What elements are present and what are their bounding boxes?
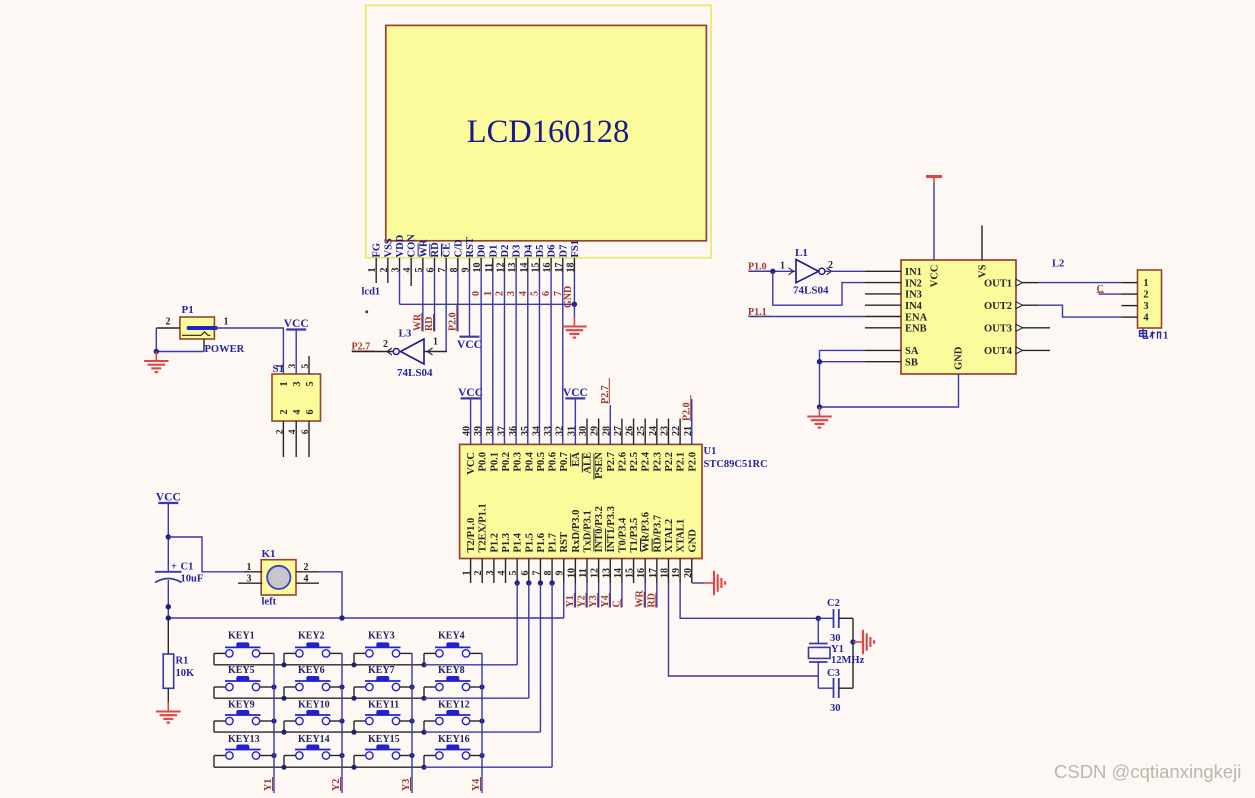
svg-text:P1.6: P1.6	[536, 533, 547, 553]
junction column Y4 row2	[479, 684, 484, 689]
motor driver chip body	[901, 260, 1016, 374]
wire branch to K1 pin1	[168, 537, 244, 572]
svg-text:1: 1	[247, 562, 252, 573]
push button KEY14	[284, 745, 331, 760]
wire R1 to ground	[167, 688, 169, 702]
K1 pin 2	[296, 571, 319, 573]
svg-text:2: 2	[828, 260, 833, 271]
wire OUT3 stub	[1023, 327, 1051, 329]
svg-text:6: 6	[305, 410, 316, 415]
resistor R1	[163, 654, 174, 688]
junction row2 col3	[351, 696, 356, 701]
svg-text:CSDN @cqtianxingkeji: CSDN @cqtianxingkeji	[1054, 761, 1241, 782]
wire KEY3 left drop	[353, 653, 355, 664]
junction P1 gnd	[154, 349, 159, 354]
svg-text:GND: GND	[954, 346, 965, 370]
key matrix row buses	[214, 664, 424, 666]
U1 bottom pin numbers 1-20	[462, 568, 694, 578]
svg-text:36: 36	[508, 426, 519, 436]
ground at R1	[156, 702, 181, 723]
svg-text:3: 3	[288, 364, 298, 369]
wire OUT1 to connector pin1	[1038, 282, 1122, 284]
svg-text:1: 1	[224, 317, 229, 328]
wire KEY3 right pin to column	[400, 652, 412, 654]
wire OUT2 to connector pin4	[1038, 305, 1122, 317]
push button KEY9	[214, 710, 261, 725]
svg-text:P0.5: P0.5	[536, 452, 547, 472]
lcd1 pin stubs	[376, 258, 574, 271]
push button KEY10	[284, 710, 331, 725]
op-amp inverter L1 74LS04	[796, 260, 825, 283]
wire motor VCC	[933, 183, 935, 260]
wire P1.1 to ENA	[749, 316, 865, 318]
svg-text:2: 2	[275, 429, 285, 434]
svg-text:OUT4: OUT4	[984, 346, 1013, 357]
svg-text:+: +	[171, 562, 177, 573]
svg-text:D7: D7	[558, 245, 569, 258]
svg-text:P0.4: P0.4	[524, 451, 535, 471]
svg-text:P1.2: P1.2	[489, 533, 500, 553]
wire KEY10 right pin to column	[330, 720, 342, 722]
svg-text:CE: CE	[442, 243, 453, 258]
svg-text:IN2: IN2	[905, 278, 922, 289]
wire L1 output to IN1	[825, 270, 865, 272]
power bar at motor VCC	[926, 177, 942, 184]
svg-text:4: 4	[1143, 313, 1149, 324]
svg-text:KEY11: KEY11	[368, 700, 399, 711]
S1 bottom stubs	[282, 421, 284, 457]
wire crystal right side	[852, 618, 854, 688]
svg-text:OUT2: OUT2	[984, 301, 1012, 312]
wire to R1	[167, 618, 169, 654]
wire KEY1 left drop	[213, 653, 215, 664]
wire KEY15 left drop	[353, 756, 355, 768]
wire WR lcd pin5	[422, 271, 424, 332]
svg-text:T2EX/P1.1: T2EX/P1.1	[478, 503, 489, 552]
svg-text:TxD/P3.1: TxD/P3.1	[583, 510, 594, 552]
svg-text:30: 30	[830, 633, 841, 644]
wire KEY15 right pin to column	[400, 755, 412, 757]
junction column Y1 row2	[271, 684, 276, 689]
stray dot	[366, 311, 369, 314]
LCD module lcd1 inner box	[386, 25, 707, 240]
svg-text:KEY7: KEY7	[368, 665, 395, 676]
wire SB to gnd	[820, 361, 866, 363]
wire SA to gnd	[820, 349, 866, 351]
svg-text:VS: VS	[978, 264, 989, 278]
svg-text:KEY3: KEY3	[368, 631, 395, 642]
svg-text:RD: RD	[430, 242, 441, 258]
svg-text:P1.7: P1.7	[548, 533, 559, 553]
lcd1 pin names	[372, 234, 581, 258]
svg-text:P0.3: P0.3	[513, 452, 524, 472]
wire KEY7 left drop	[353, 687, 355, 698]
L1 output pin arrow	[827, 268, 832, 275]
L1 input pin arrow	[789, 268, 794, 275]
wire KEY4 left drop	[423, 653, 425, 664]
connector pin stubs	[1122, 283, 1138, 318]
wire RD lcd pin6	[434, 271, 436, 332]
wire KEY11 right pin to column	[400, 720, 412, 722]
junction SB	[817, 359, 822, 364]
svg-text:1: 1	[1143, 278, 1148, 289]
svg-text:3: 3	[247, 574, 252, 585]
junction crystal ground	[850, 639, 855, 644]
K1 button circle	[267, 566, 290, 589]
push button KEY7	[354, 676, 401, 691]
wire VCC to S1 pin3	[295, 330, 297, 375]
wire KEY6 left drop	[283, 687, 285, 698]
lcd1 pin numbers 1-18	[367, 263, 576, 273]
svg-text:IN4: IN4	[905, 301, 923, 312]
svg-text:35: 35	[520, 426, 531, 436]
svg-text:IN3: IN3	[905, 290, 922, 301]
svg-text:KEY4: KEY4	[438, 631, 465, 642]
wire C/D lcd pin8	[457, 271, 459, 332]
S1 pin5 stub	[308, 356, 310, 374]
svg-text:74LS04: 74LS04	[793, 285, 829, 297]
svg-text:L1: L1	[795, 247, 808, 259]
wire lcd pin2 stub	[387, 271, 389, 283]
power VCC at U1 pin40	[458, 387, 483, 399]
wire P1 pin1 to S1	[214, 328, 283, 374]
svg-text:KEY10: KEY10	[298, 700, 330, 711]
svg-text:XTAL1: XTAL1	[676, 519, 687, 553]
push button KEY13	[214, 745, 261, 760]
svg-text:IN1: IN1	[905, 267, 922, 278]
L3 input pin arrow	[387, 348, 392, 355]
svg-text:P2.0: P2.0	[687, 452, 698, 472]
svg-text:2: 2	[166, 317, 171, 328]
connector P1 body	[180, 317, 215, 339]
junction row3 col3	[351, 730, 356, 735]
svg-text:VCC: VCC	[563, 387, 588, 399]
svg-text:VCC: VCC	[458, 387, 483, 399]
wire P1 bottom to gnd	[156, 351, 204, 353]
wire C1 to junctions	[167, 580, 169, 618]
wire lcd power bus	[400, 303, 575, 305]
svg-text:D5: D5	[535, 245, 546, 258]
svg-text:LCD160128: LCD160128	[467, 114, 630, 150]
svg-text:P2.3: P2.3	[652, 452, 663, 472]
wire KEY9 left drop	[213, 721, 215, 732]
svg-text:P0.1: P0.1	[489, 452, 500, 472]
push button KEY4	[424, 642, 471, 657]
motor chip VS stub	[981, 225, 983, 260]
svg-text:1: 1	[433, 337, 438, 348]
svg-text:SA: SA	[905, 346, 919, 357]
wires D0-D7 lcd pins10-17 to U1 P0	[481, 271, 563, 444]
svg-text:K1: K1	[262, 548, 276, 560]
crystal Y1	[809, 618, 831, 688]
wire P1 pin2 down	[155, 328, 157, 352]
svg-text:P1: P1	[182, 304, 194, 316]
P1 switch blade	[182, 332, 211, 335]
svg-text:RxD/P3.0: RxD/P3.0	[571, 510, 582, 553]
push button KEY11	[354, 710, 401, 725]
wire VCC down	[167, 503, 169, 571]
wire RST lcd pin9 to VCC	[468, 271, 470, 337]
svg-text:D3: D3	[512, 245, 523, 258]
svg-text:12MHz: 12MHz	[831, 655, 865, 666]
svg-text:D2: D2	[500, 245, 511, 258]
svg-text:FS1: FS1	[570, 240, 581, 258]
wire lcd pin1 stub	[375, 271, 377, 283]
svg-text:4: 4	[288, 429, 298, 434]
op-amp inverter L3 74LS04	[393, 339, 424, 364]
svg-text:U1: U1	[704, 446, 717, 457]
svg-text:2: 2	[304, 562, 309, 573]
push button KEY15	[354, 745, 401, 760]
junction P1.0	[770, 269, 775, 274]
svg-text:XTAL2: XTAL2	[664, 519, 675, 553]
push button KEY2	[284, 642, 331, 657]
svg-text:P2.2: P2.2	[664, 452, 675, 472]
P1 jack bar	[189, 326, 217, 330]
svg-text:INT1/P3.3: INT1/P3.3	[606, 506, 617, 552]
wire KEY13 right pin to column	[260, 755, 274, 757]
wire L3 output up to CE wire	[445, 351, 447, 354]
L3 output wire to CE	[424, 351, 447, 353]
svg-text:39: 39	[473, 426, 484, 436]
wire KEY4 right pin to column	[470, 652, 482, 654]
junction column Y2 row2	[339, 684, 344, 689]
svg-text:KEY8: KEY8	[438, 665, 465, 676]
junction row2 col2	[281, 696, 286, 701]
wire P1.5 U1 pin6 to key row2	[528, 583, 530, 698]
wire KEY16 right pin to column	[470, 755, 482, 757]
ground at motor driver	[807, 407, 832, 428]
wire lcd pin4 stub	[410, 271, 412, 286]
svg-text:Y1: Y1	[831, 644, 844, 655]
LCD module lcd1 outer box	[366, 5, 712, 257]
svg-text:P1.4: P1.4	[513, 532, 524, 552]
svg-text:74LS04: 74LS04	[397, 367, 433, 379]
svg-text:D6: D6	[547, 245, 558, 258]
junction row1 col3	[351, 662, 356, 667]
svg-text:VCC: VCC	[457, 339, 482, 351]
svg-text:ALE: ALE	[583, 452, 594, 474]
wire U1 pin21	[691, 399, 693, 444]
ground at lcd pin18	[573, 304, 575, 317]
svg-text:KEY13: KEY13	[228, 734, 260, 745]
junction motor gnd	[817, 404, 822, 409]
lcd1 overlines WR RD CE	[417, 244, 419, 257]
junction column Y3 row3	[409, 718, 414, 723]
junction column Y2 row3	[339, 718, 344, 723]
svg-text:P0.6: P0.6	[548, 452, 559, 472]
U1 EA ALE PSEN overlines	[570, 454, 572, 467]
wire KEY8 left drop	[423, 687, 425, 698]
svg-text:R1: R1	[176, 656, 189, 667]
svg-text:P2.1: P2.1	[676, 452, 687, 472]
junction XTAL1 C2	[816, 616, 821, 621]
wire XTAL1 U1 pin19	[680, 583, 818, 618]
svg-text:KEY5: KEY5	[228, 665, 255, 676]
wire P1.6 U1 pin7 to key row3	[539, 583, 541, 732]
motor OUT pin arrows	[1016, 279, 1023, 286]
svg-text:C3: C3	[827, 668, 840, 679]
junction row1 col2	[281, 662, 286, 667]
svg-text:30: 30	[830, 703, 841, 714]
push button KEY3	[354, 642, 401, 657]
svg-text:INT0/P3.2: INT0/P3.2	[594, 506, 605, 552]
wire KEY1 right pin to column	[260, 652, 274, 654]
wire U1 pin20 to ground	[692, 582, 704, 584]
svg-text:D0: D0	[477, 245, 488, 258]
svg-text:left: left	[262, 597, 277, 608]
motor chip left pin stubs	[865, 271, 901, 361]
power VCC at lcd RST	[457, 337, 482, 352]
svg-text:38: 38	[485, 426, 496, 436]
junction lcd gnd	[572, 302, 577, 307]
junction row3 col4	[421, 730, 426, 735]
svg-text:C: C	[1097, 284, 1104, 295]
svg-text:3: 3	[292, 382, 303, 387]
svg-text:P1.5: P1.5	[524, 533, 535, 553]
junction row4 col4	[421, 765, 426, 770]
wire P1.4 U1 pin5 to key row1	[516, 583, 518, 665]
svg-text:T2/P1.0: T2/P1.0	[466, 518, 477, 553]
wire K1 pin2 down	[319, 572, 342, 618]
svg-text:1: 1	[275, 364, 285, 369]
wire U1 pin31 EA VCC	[574, 398, 576, 444]
svg-text:EA: EA	[571, 452, 582, 467]
svg-text:PSEN: PSEN	[594, 452, 605, 479]
L3 output pin arrow	[428, 348, 433, 355]
svg-text:OUT1: OUT1	[984, 278, 1012, 289]
wire KEY7 right pin to column	[400, 686, 412, 688]
wire KEY2 left drop	[283, 653, 285, 664]
wire RST U1 pin9 down	[563, 583, 565, 618]
svg-text:RD/P3.7: RD/P3.7	[652, 515, 663, 553]
svg-text:L3: L3	[399, 328, 412, 340]
U1 bottom stub pins	[471, 559, 692, 584]
svg-text:VCC: VCC	[930, 265, 941, 288]
power VCC at S1	[284, 318, 309, 330]
connector label motor1	[1140, 329, 1161, 339]
junction row3 col2	[281, 730, 286, 735]
svg-text:C2: C2	[827, 598, 840, 609]
svg-text:RST: RST	[465, 237, 476, 257]
svg-text:1: 1	[780, 261, 785, 272]
svg-text:C1: C1	[181, 562, 194, 573]
svg-text:KEY9: KEY9	[228, 700, 255, 711]
wire XTAL2 U1 pin18	[668, 583, 818, 676]
junction column Y2 row4	[339, 753, 344, 758]
svg-text:WR: WR	[418, 239, 429, 258]
junction row4 col3	[351, 765, 356, 770]
K1 pin 3	[238, 582, 262, 584]
wire RST horizontal to RC	[168, 617, 563, 619]
junction column Y3 row2	[409, 684, 414, 689]
svg-text:VCC: VCC	[466, 452, 477, 475]
wire P1.0 branch to IN2	[773, 271, 865, 305]
K1 pin 4	[296, 582, 319, 584]
push button KEY16	[424, 745, 471, 760]
U1 top stub pins 30 29 27-22	[587, 419, 680, 445]
svg-text:ENA: ENA	[905, 312, 928, 323]
svg-text:KEY14: KEY14	[298, 734, 330, 745]
svg-text:32: 32	[555, 426, 566, 436]
junction C1 b	[166, 615, 171, 620]
svg-text:FG: FG	[372, 243, 383, 258]
key matrix columns Y1-Y4	[273, 653, 275, 793]
U1 top pin names	[466, 451, 698, 479]
wire U1 pin40 VCC	[470, 398, 472, 444]
wire P1 pin2	[156, 327, 180, 329]
net labels D0-D7 digits	[471, 291, 564, 296]
svg-text:P2.4: P2.4	[641, 451, 652, 471]
ground at crystal	[853, 630, 874, 655]
svg-text:C/D: C/D	[453, 239, 464, 258]
U1 top pin numbers 40-21	[462, 426, 694, 436]
svg-text:33: 33	[543, 426, 554, 436]
wire P1 bottom pin	[203, 339, 205, 352]
wire OUT4 stub	[1023, 349, 1051, 351]
wire KEY12 right pin to column	[470, 720, 482, 722]
push button KEY5	[214, 676, 261, 691]
svg-text:P0.7: P0.7	[559, 452, 570, 472]
junctions U1 pins 5-8	[514, 580, 519, 585]
push button KEY8	[424, 676, 471, 691]
connector motor1 body	[1138, 270, 1162, 328]
svg-text:P1.3: P1.3	[501, 533, 512, 553]
wire P1.7 U1 pin8 to key row4	[551, 583, 553, 767]
wire KEY8 right pin to column	[470, 686, 482, 688]
ground at U1 pin20	[704, 571, 725, 596]
svg-text:T1/P3.5: T1/P3.5	[629, 518, 640, 553]
svg-text:2: 2	[279, 410, 290, 415]
wire KEY13 left drop	[213, 756, 215, 768]
svg-text:5: 5	[301, 364, 311, 369]
svg-text:P0.0: P0.0	[478, 452, 489, 472]
wire KEY14 left drop	[283, 756, 285, 768]
wire U1 pin28	[609, 405, 611, 444]
U1 INT0 INT1 WR RD overlines	[593, 529, 595, 552]
svg-text:6: 6	[301, 429, 311, 434]
svg-text:OUT3: OUT3	[984, 324, 1012, 335]
junction K1 RST	[339, 615, 344, 620]
svg-text:P2.6: P2.6	[617, 452, 628, 472]
push button KEY12	[424, 710, 471, 725]
wire OUT2 stub	[1023, 304, 1039, 306]
junction column Y1 row3	[271, 718, 276, 723]
svg-text:VCC: VCC	[284, 318, 309, 330]
svg-text:KEY2: KEY2	[298, 631, 325, 642]
wire KEY9 right pin to column	[260, 720, 274, 722]
power VCC at U1 pin31	[563, 387, 588, 399]
wire SA SB vertical	[819, 350, 821, 407]
wires U1 pins 10-14 16 17 stubs	[575, 583, 656, 608]
svg-text:1: 1	[1163, 331, 1168, 342]
junction column Y4 row3	[479, 718, 484, 723]
wire KEY5 right pin to column	[260, 686, 274, 688]
svg-text:KEY16: KEY16	[438, 734, 470, 745]
junction C1 a	[166, 604, 171, 609]
svg-text:4: 4	[292, 410, 303, 415]
svg-text:VCC: VCC	[156, 492, 181, 504]
junction VCC branch	[166, 534, 171, 539]
push button KEY6	[284, 676, 331, 691]
wire P1.0 to L1	[749, 270, 795, 272]
U1 bottom pin names	[466, 503, 698, 552]
svg-text:P2.5: P2.5	[629, 452, 640, 472]
svg-text:RST: RST	[559, 532, 570, 552]
svg-text:VSS: VSS	[383, 238, 394, 257]
svg-text:KEY12: KEY12	[438, 700, 470, 711]
wire KEY16 left drop	[423, 756, 425, 768]
